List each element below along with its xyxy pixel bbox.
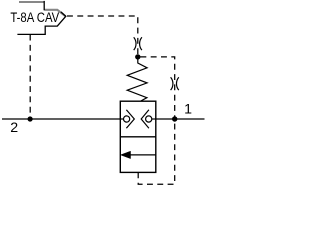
cavity tag T-8A CAV balloon outline (black bottom)	[17, 1, 65, 35]
check valve left (circle on V seat)	[124, 110, 135, 128]
check valve right (circle on V seat)	[141, 110, 152, 128]
wire: main line from port 2 to valve	[2, 118, 120, 120]
junction dot at spring/pilot node	[135, 54, 140, 59]
pilot line from valve bottom around to node 1 (dashed)	[138, 120, 175, 185]
svg-text:2: 2	[10, 120, 18, 136]
junction dot node 1	[172, 116, 177, 121]
wire: stub inside valve to left check	[120, 118, 123, 120]
orifice (upper, on pilot branch)	[134, 37, 142, 50]
spring above valve	[127, 57, 147, 101]
flow arrow in lower cell	[121, 151, 156, 158]
valve envelope (2 cells)	[120, 101, 156, 172]
wire: stub inside valve to right check	[152, 118, 156, 120]
orifice (right, on pilot branch)	[171, 77, 179, 90]
junction dot node 2	[28, 116, 33, 121]
wire: main line from valve to port 1	[156, 118, 205, 120]
pilot line from tag down to node 2 (dashed)	[29, 35, 31, 119]
pilot line from tag tip to upper orifice branch (dashed)	[67, 16, 138, 55]
svg-text:1: 1	[184, 102, 192, 118]
pilot line from junction to right orifice down to node 1 (dashed)	[140, 57, 174, 119]
cavity tag T-8A CAV balloon outline (gray top)	[19, 2, 66, 16]
svg-text:T-8A CAV: T-8A CAV	[10, 10, 59, 25]
